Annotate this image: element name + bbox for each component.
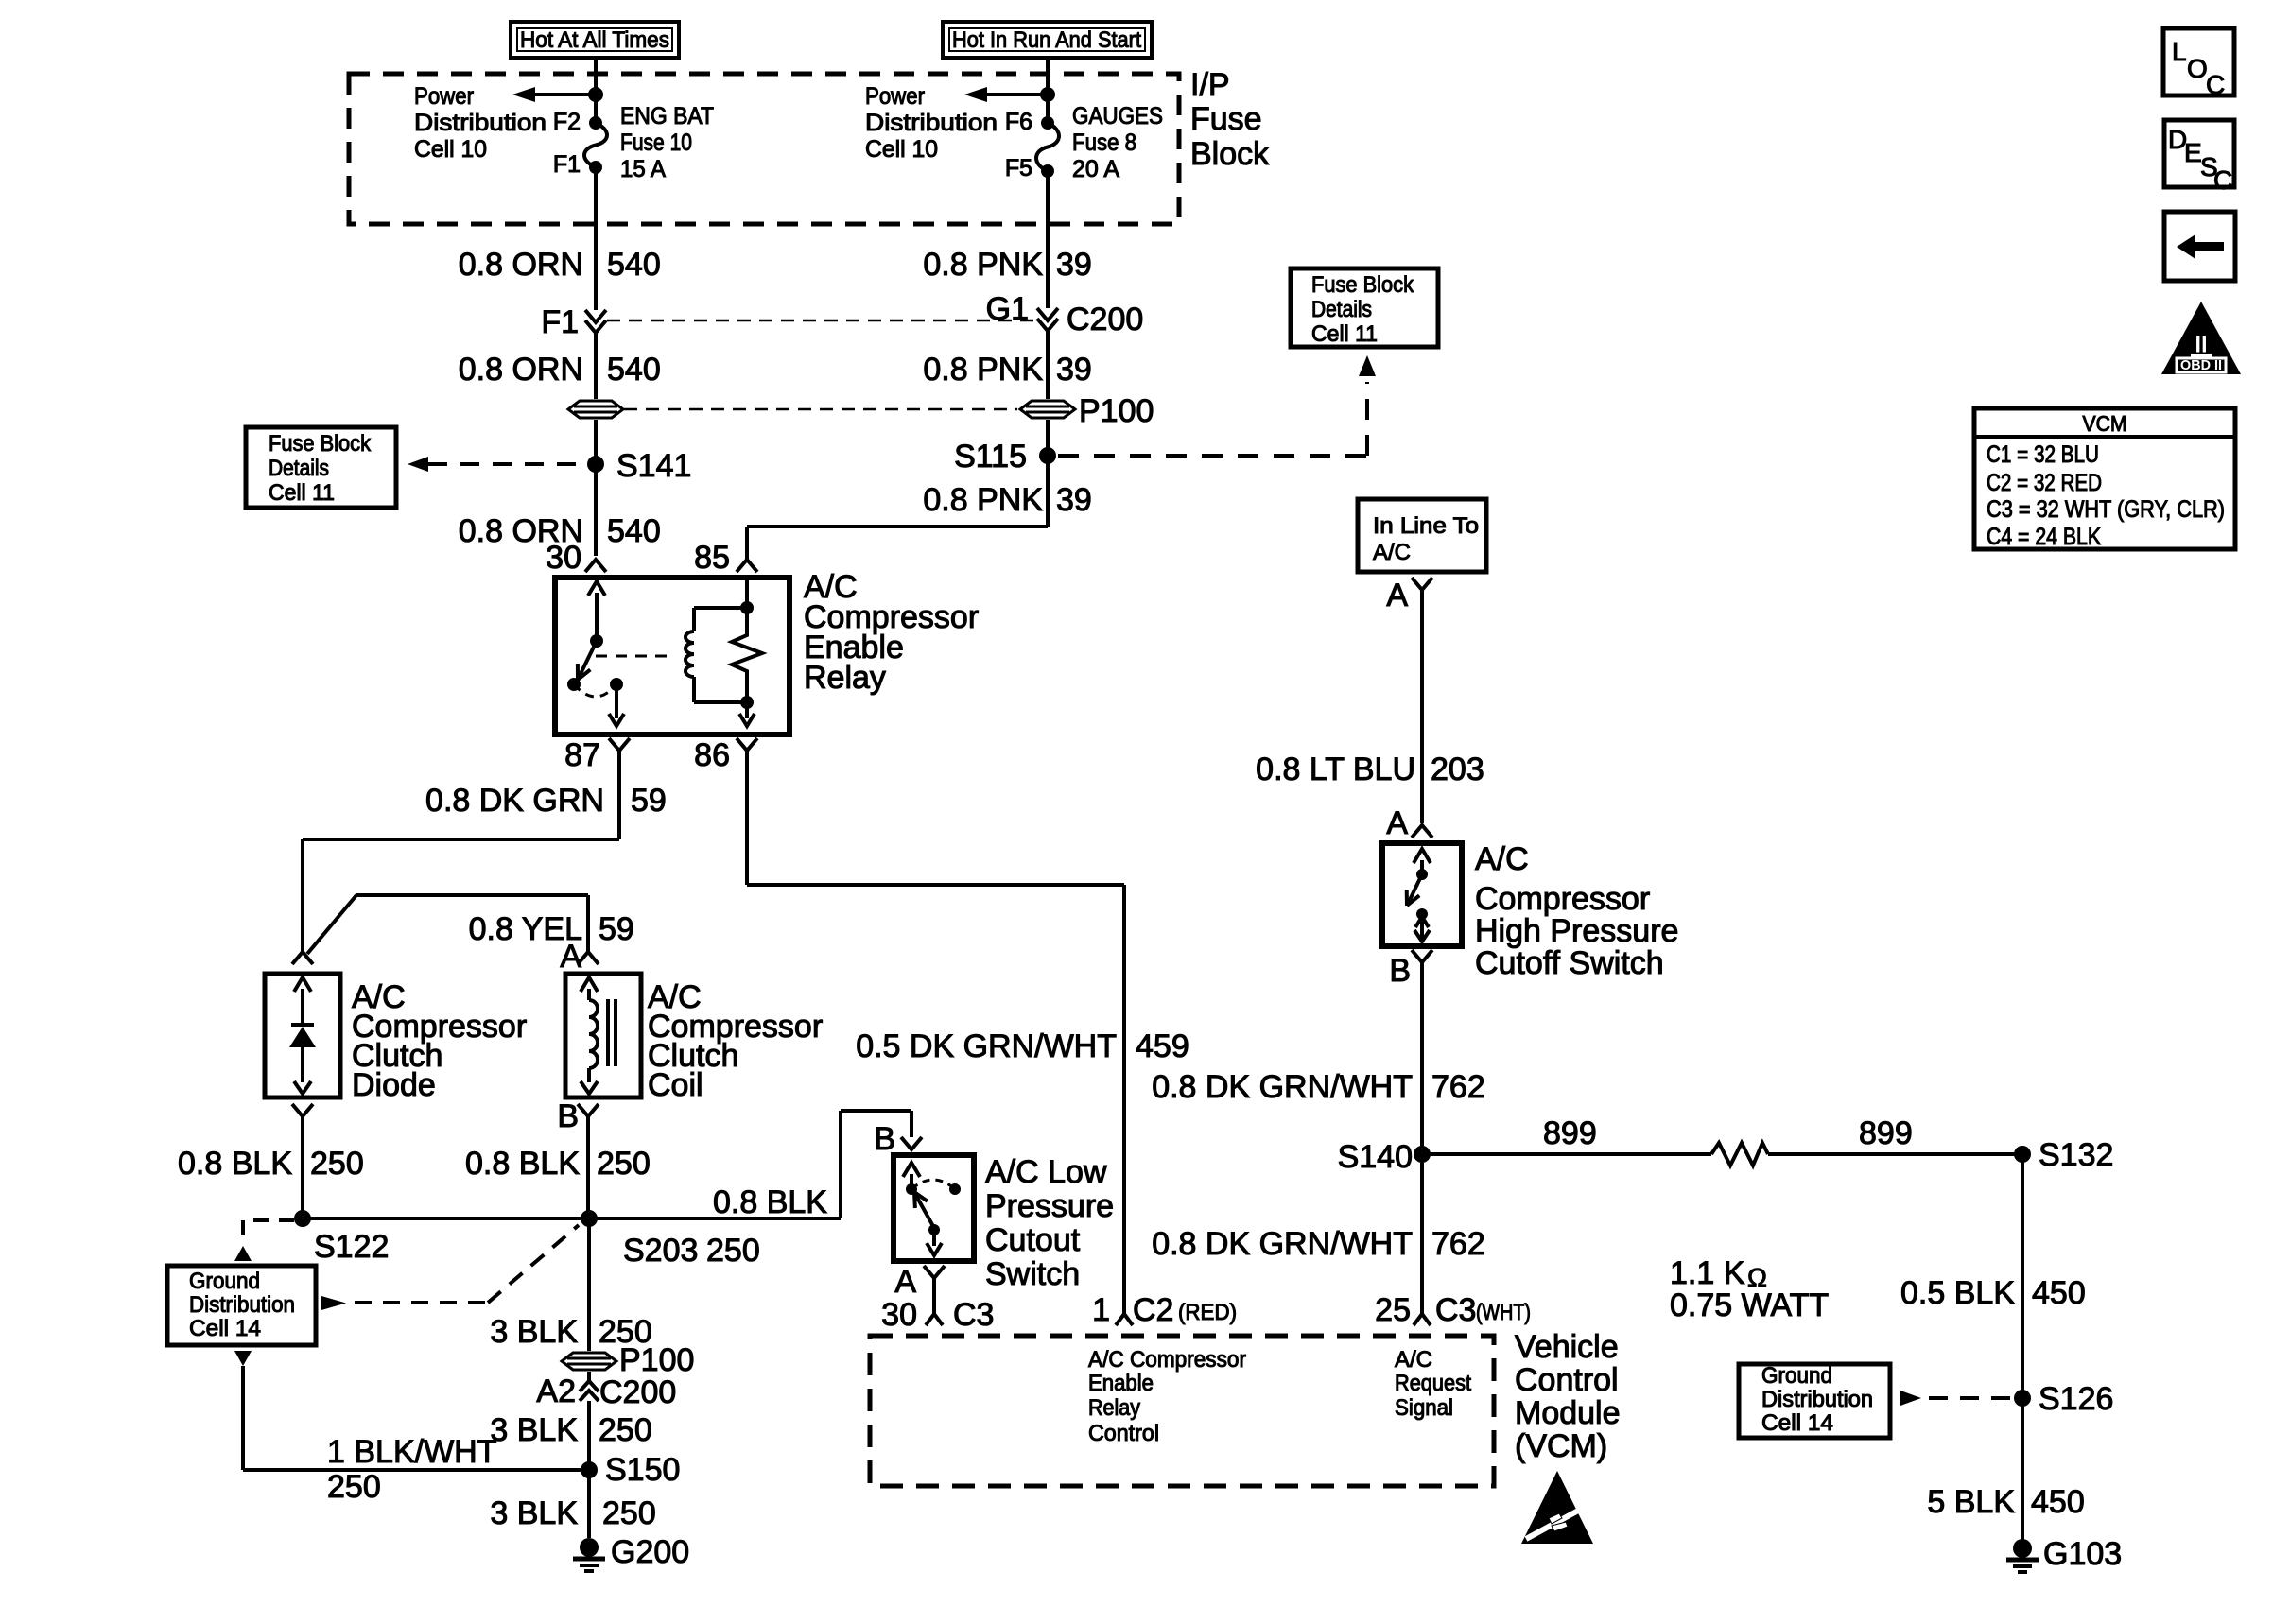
svg-text:0.75 WATT: 0.75 WATT [1670, 1287, 1829, 1323]
svg-text:Fuse Block: Fuse Block [269, 431, 372, 457]
svg-text:3 BLK: 3 BLK [490, 1314, 578, 1350]
svg-text:A/C: A/C [1475, 841, 1529, 877]
svg-text:899: 899 [1859, 1115, 1913, 1151]
svg-text:Coil: Coil [648, 1067, 703, 1103]
svg-text:S140: S140 [1338, 1139, 1413, 1175]
svg-text:Fuse 10: Fuse 10 [620, 130, 692, 156]
svg-text:450: 450 [2031, 1484, 2085, 1520]
svg-text:F6: F6 [1005, 109, 1032, 135]
svg-text:A: A [894, 1264, 916, 1300]
svg-text:C: C [2213, 165, 2232, 195]
svg-text:VCM: VCM [2083, 411, 2127, 436]
svg-text:0.8 PNK: 0.8 PNK [923, 482, 1043, 518]
svg-text:E: E [2184, 138, 2202, 167]
svg-text:Cell 11: Cell 11 [1311, 321, 1378, 347]
svg-text:Cell 14: Cell 14 [189, 1316, 261, 1341]
svg-text:Signal: Signal [1395, 1395, 1453, 1421]
svg-text:F2: F2 [553, 109, 581, 135]
svg-text:S132: S132 [2039, 1137, 2113, 1173]
svg-text:Cell 14: Cell 14 [1761, 1410, 1833, 1436]
svg-text:C3 = 32 WHT (GRY, CLR): C3 = 32 WHT (GRY, CLR) [1987, 496, 2225, 523]
svg-text:762: 762 [1431, 1226, 1485, 1262]
svg-text:Request: Request [1395, 1371, 1471, 1396]
svg-text:S203: S203 [623, 1233, 698, 1269]
svg-text:203: 203 [1431, 752, 1484, 787]
svg-text:F1: F1 [541, 304, 579, 340]
svg-text:S126: S126 [2039, 1381, 2113, 1417]
svg-text:II: II [2195, 332, 2207, 357]
svg-text:540: 540 [607, 513, 661, 549]
svg-text:0.5 DK GRN/WHT: 0.5 DK GRN/WHT [856, 1028, 1117, 1064]
svg-text:5 BLK: 5 BLK [1927, 1484, 2015, 1520]
svg-text:C200: C200 [1067, 302, 1143, 337]
svg-text:C: C [2206, 70, 2225, 99]
svg-text:B: B [1389, 953, 1411, 989]
svg-text:Control: Control [1088, 1421, 1159, 1446]
svg-text:Cutoff Switch: Cutoff Switch [1475, 945, 1664, 981]
svg-text:540: 540 [607, 247, 661, 283]
svg-text:15 A: 15 A [620, 156, 666, 182]
svg-text:C3: C3 [1435, 1292, 1476, 1328]
svg-text:0.8 LT BLU: 0.8 LT BLU [1256, 752, 1415, 787]
svg-text:O: O [2187, 54, 2208, 83]
svg-text:Module: Module [1515, 1395, 1621, 1431]
svg-text:C1 = 32 BLU: C1 = 32 BLU [1987, 441, 2099, 468]
svg-text:3 BLK: 3 BLK [490, 1412, 578, 1448]
svg-text:Pressure: Pressure [985, 1188, 1114, 1224]
svg-text:59: 59 [631, 783, 667, 819]
svg-text:39: 39 [1056, 482, 1092, 518]
svg-text:(VCM): (VCM) [1515, 1428, 1607, 1464]
svg-text:Details: Details [269, 456, 329, 481]
svg-text:450: 450 [2032, 1275, 2086, 1311]
svg-text:0.8 DK GRN/WHT: 0.8 DK GRN/WHT [1152, 1226, 1413, 1262]
svg-text:250: 250 [706, 1233, 760, 1269]
svg-text:C2 = 32 RED: C2 = 32 RED [1987, 470, 2102, 496]
svg-text:Compressor: Compressor [1475, 881, 1650, 917]
svg-text:A: A [1386, 578, 1408, 613]
svg-text:Diode: Diode [352, 1067, 436, 1103]
svg-text:Distribution: Distribution [414, 110, 547, 136]
svg-text:Switch: Switch [985, 1256, 1080, 1292]
svg-text:High Pressure: High Pressure [1475, 913, 1678, 949]
svg-text:Enable: Enable [1088, 1371, 1154, 1396]
svg-text:G1: G1 [986, 291, 1029, 327]
svg-text:250: 250 [597, 1146, 651, 1182]
svg-text:Cell 10: Cell 10 [414, 136, 487, 163]
svg-text:Distribution: Distribution [1761, 1387, 1873, 1412]
svg-text:Cell 11: Cell 11 [269, 480, 335, 506]
svg-text:Details: Details [1311, 297, 1372, 322]
svg-text:30: 30 [546, 540, 581, 576]
svg-text:250: 250 [327, 1469, 381, 1505]
svg-text:(RED): (RED) [1178, 1300, 1237, 1325]
svg-text:Relay: Relay [804, 660, 886, 696]
svg-text:Cell 10: Cell 10 [865, 136, 938, 163]
svg-text:0.8 ORN: 0.8 ORN [459, 247, 583, 283]
svg-text:0.8 DK GRN/WHT: 0.8 DK GRN/WHT [1152, 1069, 1413, 1105]
svg-text:0.8 BLK: 0.8 BLK [178, 1146, 292, 1182]
svg-text:Vehicle: Vehicle [1515, 1329, 1619, 1365]
svg-text:0.8 BLK: 0.8 BLK [465, 1146, 580, 1182]
svg-text:0.8 ORN: 0.8 ORN [459, 352, 583, 388]
svg-text:S122: S122 [314, 1229, 389, 1265]
svg-text:G103: G103 [2043, 1536, 2122, 1572]
svg-text:S150: S150 [605, 1452, 680, 1488]
svg-text:25: 25 [1375, 1292, 1411, 1328]
svg-text:39: 39 [1056, 352, 1092, 388]
svg-text:Distribution: Distribution [189, 1292, 295, 1318]
svg-text:I/P: I/P [1190, 67, 1230, 103]
svg-text:A/C: A/C [1395, 1347, 1432, 1373]
svg-text:Fuse Block: Fuse Block [1311, 272, 1414, 298]
svg-text:GAUGES: GAUGES [1072, 103, 1163, 130]
svg-text:250: 250 [602, 1495, 656, 1531]
svg-text:0.8 DK GRN: 0.8 DK GRN [425, 783, 604, 819]
svg-text:0.8 PNK: 0.8 PNK [923, 352, 1043, 388]
svg-text:A2: A2 [536, 1373, 576, 1409]
svg-text:C200: C200 [599, 1374, 676, 1410]
svg-text:B: B [557, 1098, 579, 1134]
svg-text:1: 1 [1092, 1292, 1110, 1328]
svg-text:Fuse 8: Fuse 8 [1072, 130, 1136, 156]
svg-text:Distribution: Distribution [865, 110, 998, 136]
svg-text:1 BLK/WHT: 1 BLK/WHT [327, 1434, 496, 1470]
svg-text:Fuse: Fuse [1190, 101, 1262, 137]
svg-text:Hot At All Times: Hot At All Times [520, 27, 669, 53]
svg-text:Control: Control [1515, 1362, 1619, 1398]
svg-text:P100: P100 [619, 1342, 694, 1378]
svg-text:87: 87 [564, 737, 600, 773]
svg-text:Power: Power [865, 83, 925, 110]
svg-text:A: A [1386, 805, 1408, 841]
svg-text:F5: F5 [1005, 155, 1032, 181]
svg-text:C2: C2 [1133, 1292, 1173, 1328]
svg-text:A: A [560, 939, 581, 975]
svg-text:39: 39 [1056, 247, 1092, 283]
svg-text:250: 250 [599, 1412, 652, 1448]
svg-text:Ground: Ground [1761, 1363, 1832, 1389]
svg-text:S115: S115 [954, 439, 1027, 475]
svg-text:B: B [874, 1121, 895, 1157]
svg-text:Ground: Ground [189, 1269, 260, 1294]
svg-text:899: 899 [1543, 1115, 1597, 1151]
svg-text:762: 762 [1431, 1069, 1485, 1105]
svg-text:250: 250 [310, 1146, 364, 1182]
svg-text:Cutout: Cutout [985, 1222, 1081, 1258]
svg-text:540: 540 [607, 352, 661, 388]
svg-text:In Line To: In Line To [1373, 513, 1479, 539]
svg-text:A/C Low: A/C Low [985, 1154, 1107, 1190]
svg-text:59: 59 [599, 911, 634, 947]
svg-text:Power: Power [414, 83, 474, 110]
svg-text:85: 85 [694, 540, 730, 576]
svg-text:C4 = 24 BLK: C4 = 24 BLK [1987, 524, 2101, 550]
svg-text:P100: P100 [1079, 393, 1154, 429]
svg-text:86: 86 [694, 737, 730, 773]
svg-text:C3: C3 [953, 1297, 994, 1333]
svg-text:1.1 K: 1.1 K [1670, 1255, 1745, 1291]
svg-text:3 BLK: 3 BLK [490, 1495, 578, 1531]
svg-text:G200: G200 [611, 1534, 689, 1570]
svg-text:F1: F1 [553, 151, 581, 178]
svg-text:A/C: A/C [1373, 540, 1411, 565]
svg-text:Relay: Relay [1088, 1395, 1140, 1421]
svg-text:459: 459 [1136, 1028, 1189, 1064]
svg-text:L: L [2172, 37, 2187, 66]
svg-text:0.8 PNK: 0.8 PNK [923, 247, 1043, 283]
svg-text:OBD II: OBD II [2180, 357, 2222, 373]
svg-text:(WHT): (WHT) [1476, 1300, 1531, 1325]
svg-text:0.8 BLK: 0.8 BLK [713, 1184, 827, 1220]
svg-text:S141: S141 [616, 448, 691, 484]
svg-text:30: 30 [881, 1297, 917, 1333]
svg-text:ENG BAT: ENG BAT [620, 103, 714, 130]
svg-text:A/C Compressor: A/C Compressor [1088, 1347, 1246, 1373]
svg-text:Hot In Run And Start: Hot In Run And Start [952, 27, 1141, 53]
svg-text:0.5 BLK: 0.5 BLK [1900, 1275, 2015, 1311]
svg-text:20 A: 20 A [1072, 156, 1119, 182]
svg-text:Block: Block [1190, 136, 1270, 172]
